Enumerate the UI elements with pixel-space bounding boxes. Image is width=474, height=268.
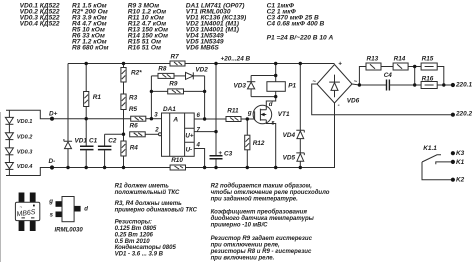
terminal K2 (451, 177, 465, 184)
svg-text:резисторы R8 и R9 - гистерезис: резисторы R8 и R9 - гистерезис (210, 249, 312, 255)
svg-text:R5: R5 (129, 106, 138, 113)
svg-text:VD3: VD3 (234, 83, 247, 90)
svg-text:диодного датчика температуры: диодного датчика температуры (211, 216, 315, 222)
wire gate (241, 118, 255, 120)
svg-text:4: 4 (196, 141, 201, 148)
wire pin3 (146, 118, 162, 120)
svg-text:R9: R9 (169, 81, 178, 88)
svg-text:VT1: VT1 (278, 111, 290, 118)
svg-text:R15: R15 (422, 55, 434, 62)
wire bridge output to snubber (352, 84, 386, 85)
svg-text:R7: R7 (171, 54, 180, 61)
transistor VT1 (253, 97, 290, 168)
svg-text:R4: R4 (130, 145, 139, 152)
svg-text:U+: U+ (185, 133, 193, 140)
svg-text:220.1: 220.1 (455, 82, 472, 89)
svg-text:C4: C4 (384, 72, 393, 79)
svg-text:VD0.3: VD0.3 (17, 150, 33, 156)
junction pin7 U+ (214, 130, 217, 133)
svg-text:K1: K1 (456, 159, 465, 166)
junction VD5 ground (299, 166, 302, 169)
NOTES-TEXT-LEFT (115, 183, 198, 257)
wire pin2 with inversion circle (145, 133, 161, 136)
terminal D- (50, 165, 54, 169)
relay coil P1 (267, 76, 297, 97)
wire R2/R3/R4 column (123, 64, 125, 168)
wire snubber upper branch (359, 67, 443, 86)
svg-text:P1 =24 В/~220 В 10 А: P1 =24 В/~220 В 10 А (267, 35, 334, 42)
wire pin6 (194, 118, 226, 120)
svg-text:R6: R6 (130, 123, 139, 130)
junction R1/C1 on D+ rail (85, 117, 88, 120)
resistor R9 (151, 81, 204, 94)
resistor R16 (421, 75, 437, 88)
svg-text:K2: K2 (456, 177, 465, 184)
capacitor C1 (80, 138, 98, 150)
svg-text:VD6 MB6S: VD6 MB6S (186, 45, 220, 52)
svg-text:Резистор R9 задает гистерезис: Резистор R9 задает гистерезис (211, 236, 313, 242)
resistor R6 (130, 123, 146, 137)
wire hysteresis left column (150, 76, 152, 119)
svg-text:R2 подбирается таким образом,: R2 подбирается таким образом, (211, 182, 313, 189)
junction R15/R16 right (442, 83, 445, 86)
junction R1 top rail (85, 62, 88, 65)
wire VD3/P1 top link (251, 76, 276, 82)
svg-text:P1: P1 (288, 83, 296, 90)
node P1/VD3 top (274, 74, 277, 77)
resistor R13 (366, 55, 381, 70)
svg-text:примерно -10 мВ/С: примерно -10 мВ/С (211, 223, 269, 229)
diode VD0.1 (5, 117, 32, 125)
junction C3 ground (214, 166, 217, 169)
svg-text:VD2: VD2 (195, 67, 208, 74)
wire R1/C1 column (85, 64, 87, 168)
diode VD2 (174, 67, 208, 80)
junction R4 ground (122, 166, 125, 169)
wire top rail left segment (68, 63, 170, 65)
svg-text:2: 2 (154, 127, 159, 134)
diode VD0.4 (5, 163, 33, 171)
node pin3 (150, 117, 153, 120)
wire pin7 (194, 131, 216, 133)
svg-text:VD0.2: VD0.2 (17, 134, 33, 140)
resistor R12 (245, 119, 265, 168)
junction pin4 ground (203, 166, 206, 169)
svg-text:R16 51 Ом: R16 51 Ом (128, 45, 161, 52)
wire pin4 (194, 149, 204, 168)
junction C1 ground (85, 166, 88, 169)
junction R2* top rail (122, 62, 125, 65)
svg-text:положительный ТКС: положительный ТКС (115, 189, 180, 196)
svg-text:IRML0030: IRML0030 (55, 228, 84, 234)
svg-text:чтобы отключение реле происход: чтобы отключение реле происходило (211, 189, 330, 196)
diode VD3 (234, 82, 256, 97)
resistor R1 (84, 92, 102, 107)
svg-text:Коэффициент преобразования: Коэффициент преобразования (211, 209, 308, 216)
resistor R11 (226, 108, 241, 122)
svg-text:3: 3 (154, 112, 158, 119)
svg-text:VD1: VD1 (75, 138, 88, 145)
svg-text:Резисторы:: Резисторы: (115, 219, 152, 225)
svg-text:R1: R1 (93, 94, 102, 101)
svg-text:0.25 Вт 1206: 0.25 Вт 1206 (115, 233, 154, 239)
resistor R15 (421, 55, 437, 70)
svg-text:U-: U- (186, 147, 193, 154)
svg-text:~: ~ (20, 204, 23, 209)
resistor R14 (393, 55, 408, 70)
junction VD2/R9 right (203, 90, 206, 93)
svg-text:C3: C3 (224, 150, 233, 157)
wire VD4/VD5 column (299, 64, 301, 168)
svg-text:R8 680 кОм: R8 680 кОм (72, 45, 109, 52)
svg-text:C2: C2 (108, 138, 117, 145)
svg-text:-: - (338, 102, 340, 109)
wire D- step to diode chain (6, 168, 52, 176)
svg-text:+20...24 В: +20...24 В (221, 55, 251, 62)
svg-text:при заданной температуре.: при заданной температуре. (211, 196, 299, 203)
svg-text:VD0.4 КД522: VD0.4 КД522 (20, 21, 60, 28)
capacitor C4 (384, 72, 393, 90)
svg-text:220.2: 220.2 (455, 110, 472, 117)
svg-text:VD1 - 3.6 ... 3.9 В: VD1 - 3.6 ... 3.9 В (115, 251, 164, 257)
svg-text:R2*: R2* (131, 70, 142, 77)
wire 220.2 line (312, 84, 453, 115)
svg-text:DA1: DA1 (163, 106, 176, 113)
svg-text:R14: R14 (394, 55, 406, 62)
resistor R10 (170, 157, 185, 170)
svg-text:d: d (84, 207, 88, 213)
NOTES-TEXT-RIGHT (210, 182, 330, 261)
capacitor C2 (98, 134, 124, 167)
package MB6S (15, 193, 39, 232)
svg-text:Конденсаторы 0805: Конденсаторы 0805 (115, 245, 177, 251)
junction bridge output (358, 83, 361, 86)
resistor R4 (121, 141, 138, 156)
svg-text:K3: K3 (456, 150, 465, 157)
diode VD0.3 (5, 148, 33, 156)
svg-text:0.125 Вт 0805: 0.125 Вт 0805 (115, 226, 157, 232)
wire snubber lower branch (389, 84, 453, 86)
resistor R5 (129, 106, 146, 121)
junction output pin6 (203, 117, 206, 120)
wire zener column (67, 64, 69, 168)
wire top rail right segment (185, 63, 335, 65)
svg-text:R3: R3 (129, 94, 138, 101)
svg-text:D-: D- (49, 158, 56, 165)
node sensor R4/R6/C2 (122, 133, 125, 136)
wire P1 branch from rail (275, 64, 277, 76)
op-amp DA1 (162, 106, 195, 156)
junction R12 ground (246, 166, 249, 169)
diode VD0.2 (5, 133, 33, 141)
svg-text:VD4: VD4 (283, 132, 296, 139)
svg-text:при включении реле.: при включении реле. (211, 256, 275, 262)
svg-text:0.5 Вт 2010: 0.5 Вт 2010 (115, 239, 151, 245)
resistor R3 (121, 94, 138, 110)
svg-text:K1.1: K1.1 (423, 145, 437, 152)
resistor R2* (121, 68, 142, 83)
svg-text:R3, R4 должны иметь: R3, R4 должны иметь (115, 201, 183, 207)
node gate (246, 117, 249, 120)
wire D+ step from diode chain (6, 110, 52, 118)
wire ground rail left (52, 167, 170, 169)
svg-text:R11: R11 (227, 108, 239, 115)
svg-text:VD5: VD5 (283, 155, 296, 162)
terminal 220.1 (451, 82, 473, 89)
svg-text:при отключении реле,: при отключении реле, (211, 242, 280, 248)
HEADER-TEXT (20, 3, 334, 52)
terminal K3 (451, 150, 465, 157)
capacitor C3 (210, 150, 233, 159)
zener VD5 (283, 153, 305, 162)
svg-text:+: + (338, 60, 342, 67)
junction VT1 source ground (274, 166, 277, 169)
svg-text:C1: C1 (89, 138, 98, 145)
relay contact K1.1 (422, 145, 453, 180)
zener VD1 (64, 138, 87, 149)
wire hysteresis right column (204, 76, 206, 119)
wire VD3/P1 bottom link (251, 96, 276, 98)
junction P1 branch top rail (274, 62, 277, 65)
svg-text:g: g (48, 199, 53, 205)
node P1/VD3 bottom drain (274, 95, 277, 98)
terminal K1 (451, 159, 465, 166)
resistor R8 (151, 66, 174, 79)
svg-text:R13: R13 (367, 55, 379, 62)
junction R14/R15 (413, 65, 416, 68)
package IRML0030 (48, 197, 88, 234)
resistor R7 (170, 54, 185, 66)
junction R8/R9 left (150, 90, 153, 93)
wire +24V feed column (215, 64, 217, 168)
wire R14/R15 mid tap (414, 67, 416, 86)
wire D+ rail (52, 118, 131, 120)
svg-text:g: g (247, 110, 252, 117)
svg-text:VD0.4: VD0.4 (17, 164, 33, 170)
zener VD4 (283, 130, 305, 139)
scan edge artifact left (0, 112, 2, 262)
svg-text:~: ~ (312, 79, 316, 86)
svg-text:C4 0.68 мкФ 400 В: C4 0.68 мкФ 400 В (267, 21, 325, 28)
junction C2 ground (103, 166, 106, 169)
svg-text:A: A (172, 116, 178, 123)
svg-text:D+: D+ (49, 111, 58, 118)
junction VD4 top rail (299, 62, 302, 65)
svg-text:R10: R10 (171, 157, 183, 164)
junction C4/R16 (413, 83, 416, 86)
terminal D+ (50, 117, 54, 121)
svg-text:VD6: VD6 (347, 97, 360, 104)
wire ground rail right to bridge bottom (186, 103, 335, 168)
junction U+ feed top rail (214, 62, 217, 65)
svg-text:+: + (218, 150, 222, 157)
svg-text:R8: R8 (158, 66, 167, 73)
bridge VD6 (312, 60, 359, 109)
svg-text:примерно одинаковый ТКС: примерно одинаковый ТКС (115, 207, 198, 214)
svg-text:R16: R16 (422, 75, 434, 82)
svg-text:R12: R12 (253, 140, 265, 147)
junction VD1 ground (66, 166, 69, 169)
svg-text:d: d (269, 101, 273, 108)
svg-text:VD0.1: VD0.1 (17, 119, 33, 125)
wire diode chain (8, 110, 10, 175)
terminal 220.2 (451, 110, 473, 117)
svg-text:R1 должен иметь: R1 должен иметь (115, 183, 170, 189)
